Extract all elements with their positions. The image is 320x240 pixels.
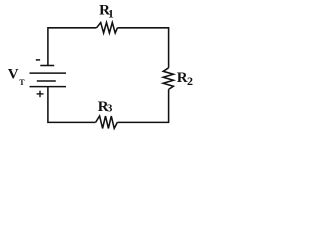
battery VT plate long upper [30,72,67,74]
battery VT plate medium (middle) [37,80,56,82]
svg-text:V: V [8,66,19,82]
wire R3 left to battery bottom (bottom-left corner) [48,87,96,123]
resistor R2 [163,68,173,90]
wire R2 bottom to R3 right (bottom-right corner) [117,89,168,122]
battery VT plate long bottom (positive) [30,86,67,88]
wire R1 right to R2 top (top-right corner) [117,28,168,68]
label R1 [99,2,114,20]
battery VT plate negative short (top) [40,65,54,67]
resistor R1 [97,23,118,34]
label R2 [177,70,193,88]
plus polarity sign (vertical) [39,91,41,98]
svg-text:2: 2 [187,74,193,88]
minus polarity sign [36,59,40,61]
plus polarity sign (horizontal) [37,93,44,95]
resistor R3 [96,116,118,128]
label R3 [98,99,113,115]
label VT [8,66,26,87]
wire battery top to R1 left (top-left corner) [48,28,97,66]
svg-text:T: T [19,78,25,87]
svg-text:3: 3 [107,103,113,115]
svg-text:1: 1 [108,6,114,20]
